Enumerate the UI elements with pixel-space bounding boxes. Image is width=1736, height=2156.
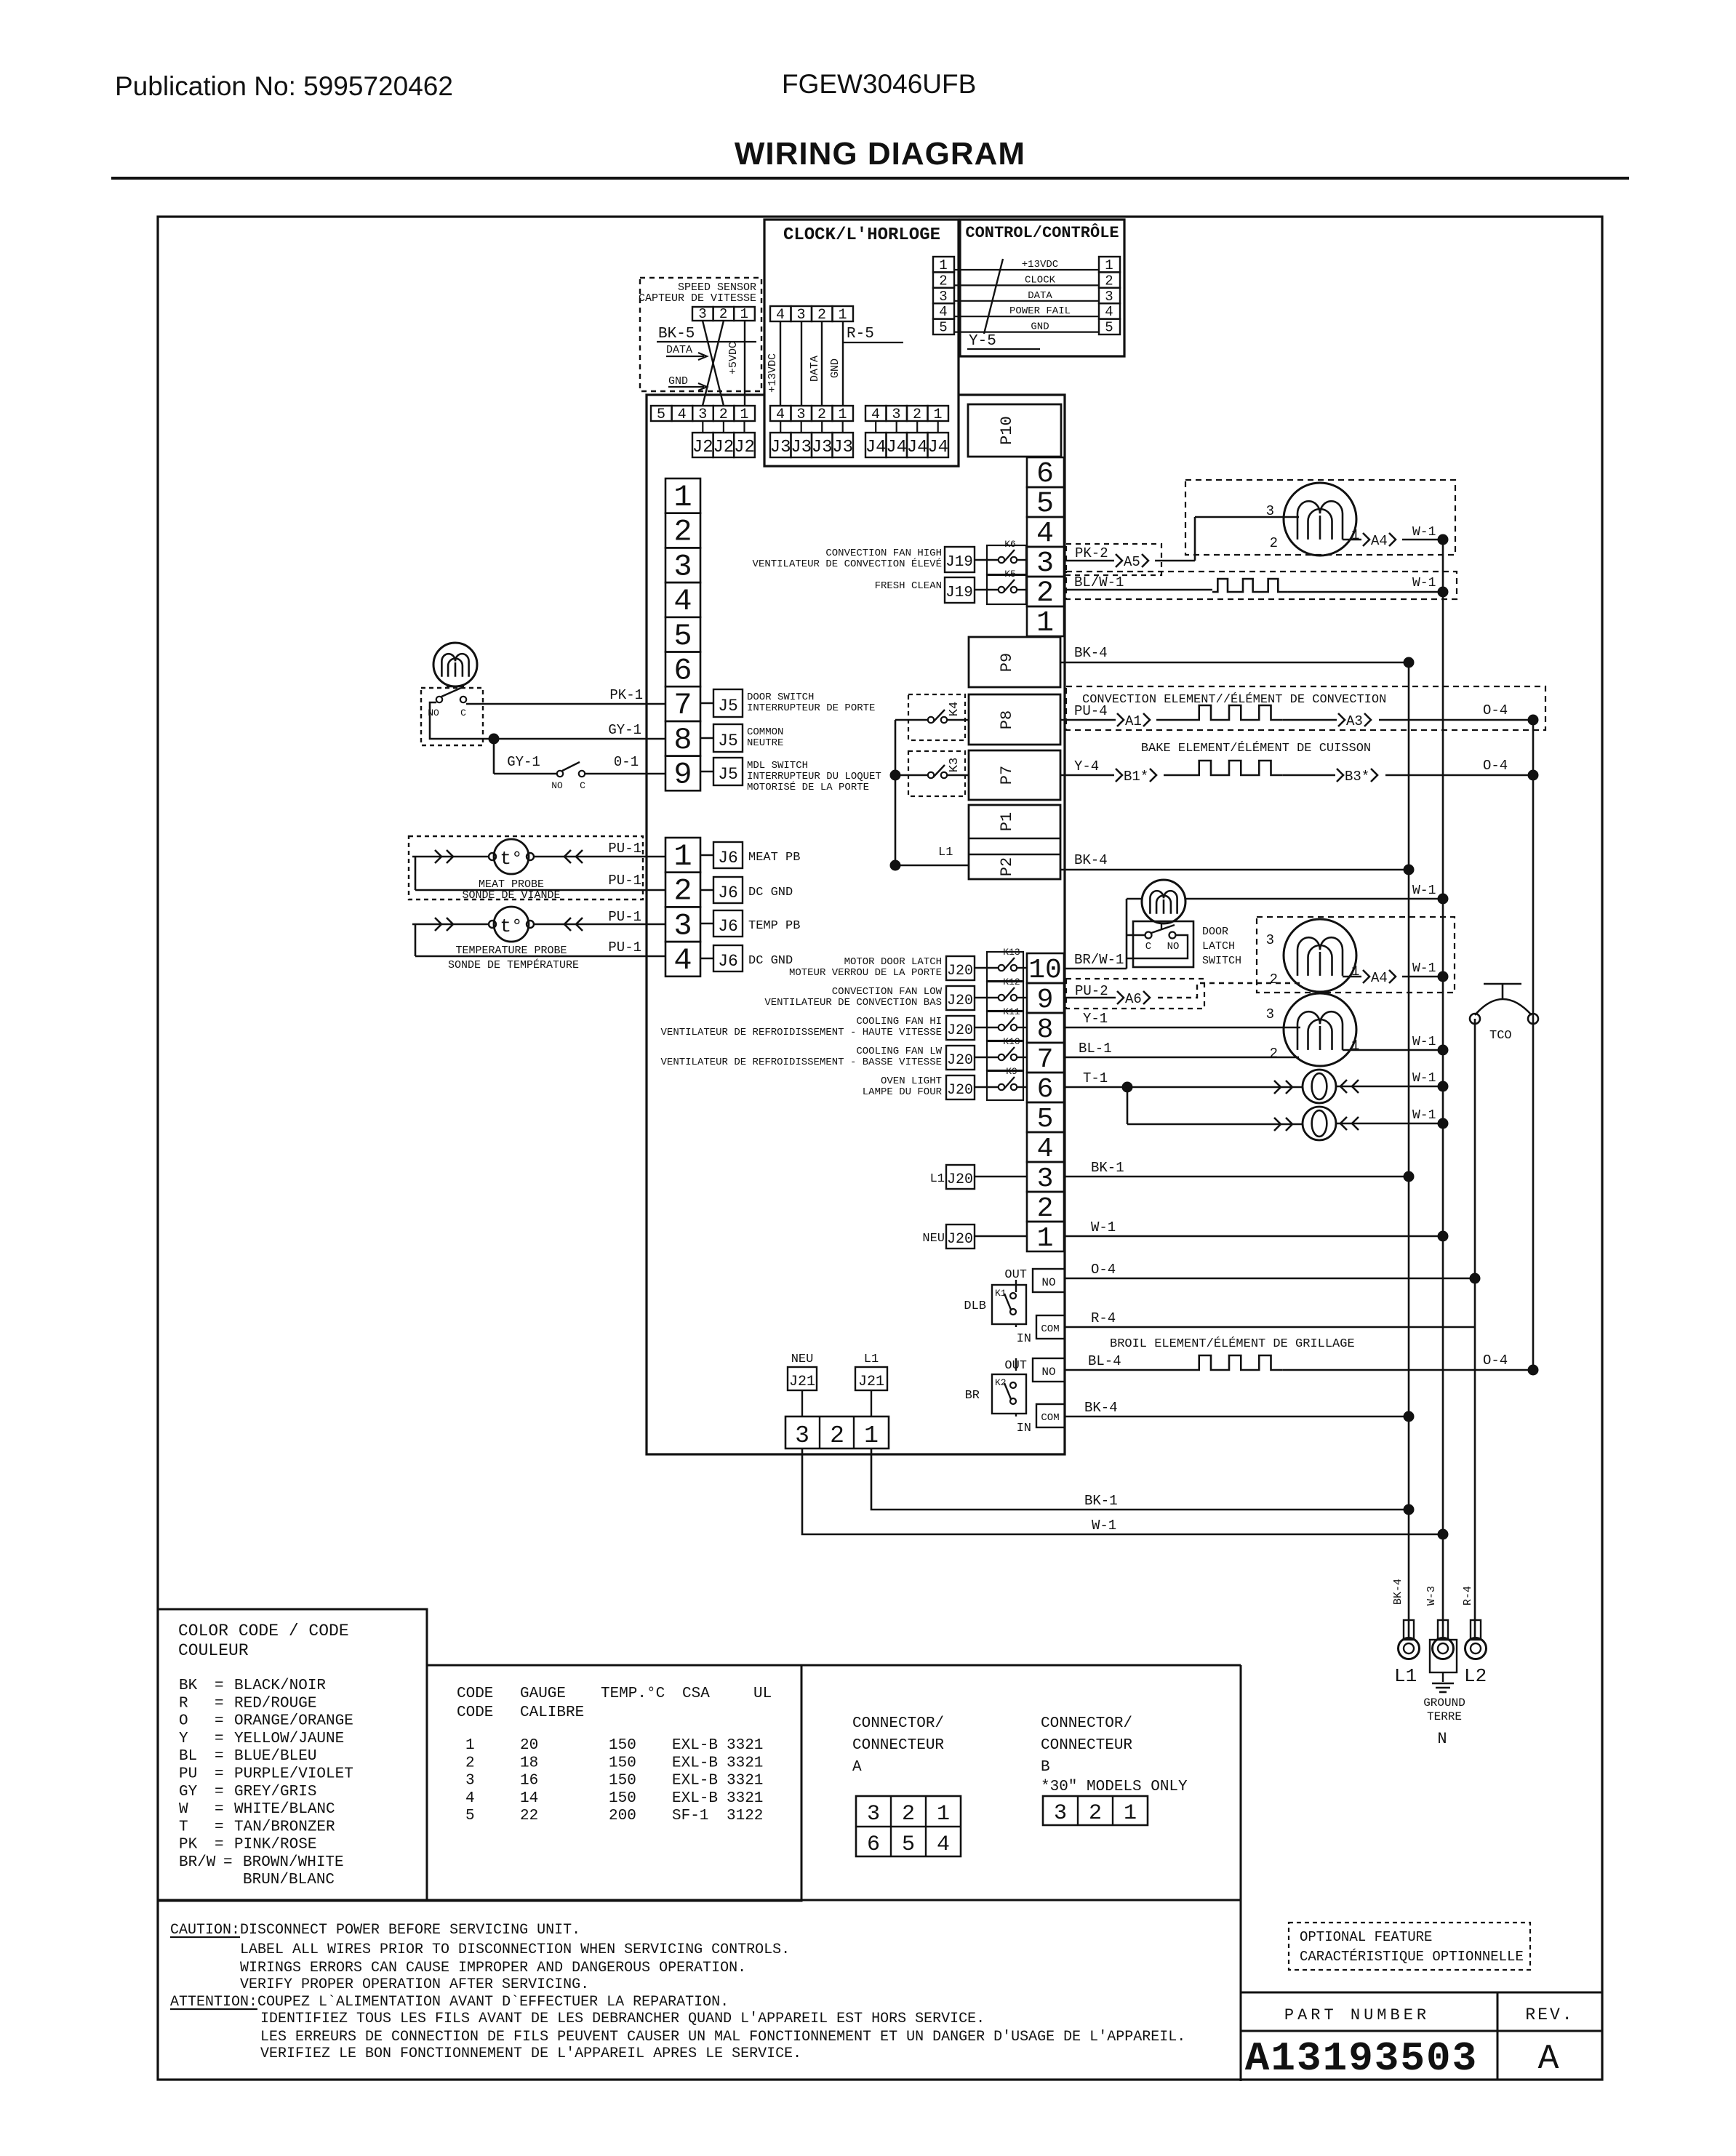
svg-text:COM: COM bbox=[1041, 1323, 1059, 1335]
svg-text:BLACK/NOIR: BLACK/NOIR bbox=[234, 1678, 326, 1694]
svg-text:RED/ROUGE: RED/ROUGE bbox=[234, 1695, 316, 1712]
svg-text:R-5: R-5 bbox=[847, 326, 874, 342]
svg-text:+13VDC: +13VDC bbox=[767, 353, 779, 393]
svg-text:Y-1: Y-1 bbox=[1083, 1011, 1108, 1027]
svg-text:W-1: W-1 bbox=[1092, 1518, 1116, 1534]
svg-text:2: 2 bbox=[719, 406, 728, 423]
svg-text:DOOR SWITCH: DOOR SWITCH bbox=[747, 692, 814, 703]
svg-text:J6: J6 bbox=[718, 917, 738, 936]
svg-text:GY: GY bbox=[179, 1784, 198, 1800]
svg-text:4: 4 bbox=[1037, 1134, 1054, 1165]
svg-text:CALIBRE: CALIBRE bbox=[520, 1704, 584, 1721]
svg-text:4: 4 bbox=[776, 307, 785, 324]
svg-text:A: A bbox=[1538, 2040, 1559, 2079]
svg-text:VERIFIEZ LE BON FONCTIONNEMENT: VERIFIEZ LE BON FONCTIONNEMENT DE L'APPA… bbox=[260, 2045, 801, 2062]
svg-text:MOTOR DOOR LATCH: MOTOR DOOR LATCH bbox=[844, 956, 942, 968]
svg-text:W-1: W-1 bbox=[1412, 1108, 1436, 1123]
svg-text:CONNECTEUR: CONNECTEUR bbox=[852, 1737, 944, 1754]
svg-text:J20: J20 bbox=[947, 1231, 973, 1248]
svg-text:3: 3 bbox=[465, 1773, 475, 1790]
svg-text:A4: A4 bbox=[1371, 970, 1388, 986]
svg-text:J20: J20 bbox=[947, 1171, 973, 1188]
svg-text:GREY/GRIS: GREY/GRIS bbox=[234, 1784, 316, 1800]
svg-text:5: 5 bbox=[465, 1808, 475, 1824]
svg-text:150: 150 bbox=[609, 1755, 636, 1771]
svg-text:J20: J20 bbox=[947, 963, 973, 979]
svg-text:GND: GND bbox=[668, 375, 688, 388]
svg-text:BK-5: BK-5 bbox=[658, 326, 695, 342]
svg-text:MOTORISÉ DE LA PORTE: MOTORISÉ DE LA PORTE bbox=[747, 780, 869, 793]
svg-text:P1: P1 bbox=[998, 812, 1016, 831]
svg-text:J20: J20 bbox=[947, 1022, 973, 1039]
svg-text:2: 2 bbox=[830, 1422, 844, 1449]
svg-text:1: 1 bbox=[1105, 257, 1113, 273]
svg-text:C: C bbox=[1145, 941, 1151, 953]
svg-text:J2: J2 bbox=[692, 438, 713, 457]
svg-text:EXL-B: EXL-B bbox=[672, 1737, 718, 1754]
svg-text:CLOCK/L'HORLOGE: CLOCK/L'HORLOGE bbox=[783, 225, 940, 245]
svg-text:=: = bbox=[215, 1766, 224, 1783]
svg-text:ATTENTION:COUPEZ L`ALIMENTATIO: ATTENTION:COUPEZ L`ALIMENTATION AVANT D`… bbox=[170, 1994, 729, 2011]
svg-text:1: 1 bbox=[838, 307, 847, 324]
svg-text:4: 4 bbox=[678, 406, 687, 423]
svg-text:7: 7 bbox=[673, 688, 692, 723]
svg-text:=: = bbox=[215, 1784, 224, 1800]
svg-text:J5: J5 bbox=[718, 765, 738, 784]
svg-text:A3: A3 bbox=[1346, 713, 1363, 729]
svg-text:T: T bbox=[179, 1819, 188, 1835]
svg-text:=: = bbox=[215, 1731, 224, 1747]
svg-text:J3: J3 bbox=[832, 438, 853, 457]
svg-text:ORANGE/ORANGE: ORANGE/ORANGE bbox=[234, 1713, 353, 1730]
svg-text:9: 9 bbox=[1037, 985, 1054, 1016]
svg-text:YELLOW/JAUNE: YELLOW/JAUNE bbox=[234, 1731, 344, 1747]
svg-text:B3*: B3* bbox=[1345, 769, 1369, 785]
svg-text:150: 150 bbox=[609, 1790, 636, 1807]
svg-text:2: 2 bbox=[673, 874, 692, 909]
svg-text:CAUTION:DISCONNECT POWER BEFOR: CAUTION:DISCONNECT POWER BEFORE SERVICIN… bbox=[170, 1922, 580, 1939]
svg-text:4: 4 bbox=[776, 406, 785, 423]
svg-text:J4: J4 bbox=[886, 438, 907, 457]
svg-text:TEMP PB: TEMP PB bbox=[748, 919, 800, 933]
svg-text:4: 4 bbox=[939, 304, 947, 320]
svg-text:PK-1: PK-1 bbox=[609, 687, 643, 703]
svg-text:3: 3 bbox=[892, 406, 900, 423]
svg-text:5: 5 bbox=[673, 619, 692, 654]
svg-text:J3: J3 bbox=[791, 438, 812, 457]
svg-text:WHITE/BLANC: WHITE/BLANC bbox=[234, 1801, 335, 1818]
svg-text:MDL SWITCH: MDL SWITCH bbox=[747, 760, 808, 772]
svg-text:3321: 3321 bbox=[727, 1737, 763, 1754]
svg-text:CONVECTION FAN HIGH: CONVECTION FAN HIGH bbox=[825, 548, 942, 559]
svg-text:4: 4 bbox=[1105, 304, 1113, 320]
svg-text:PART NUMBER: PART NUMBER bbox=[1284, 2006, 1430, 2024]
svg-text:J5: J5 bbox=[718, 732, 738, 750]
svg-text:CONVECTION FAN LOW: CONVECTION FAN LOW bbox=[832, 986, 943, 998]
svg-text:C: C bbox=[580, 780, 585, 791]
svg-text:5: 5 bbox=[939, 320, 947, 336]
svg-text:P7: P7 bbox=[998, 766, 1016, 785]
svg-text:N: N bbox=[1437, 1730, 1447, 1748]
svg-text:2: 2 bbox=[1036, 577, 1054, 610]
svg-text:BROIL ELEMENT/ÉLÉMENT DE GRILL: BROIL ELEMENT/ÉLÉMENT DE GRILLAGE bbox=[1110, 1337, 1355, 1351]
svg-text:CONNECTOR/: CONNECTOR/ bbox=[1041, 1715, 1132, 1732]
svg-text:K3: K3 bbox=[948, 758, 961, 772]
svg-text:3: 3 bbox=[796, 406, 805, 423]
svg-text:BK-4: BK-4 bbox=[1074, 645, 1108, 661]
svg-text:IN: IN bbox=[1017, 1422, 1031, 1435]
svg-text:2: 2 bbox=[902, 1802, 915, 1827]
svg-text:GAUGE: GAUGE bbox=[520, 1686, 566, 1702]
svg-text:200: 200 bbox=[609, 1808, 636, 1824]
svg-text:K6: K6 bbox=[1004, 539, 1016, 550]
svg-text:IN: IN bbox=[1017, 1332, 1031, 1346]
svg-text:=: = bbox=[215, 1713, 224, 1730]
svg-text:Y: Y bbox=[179, 1731, 188, 1747]
svg-text:3: 3 bbox=[1105, 289, 1113, 305]
svg-text:4: 4 bbox=[465, 1790, 475, 1807]
svg-text:T-1: T-1 bbox=[1083, 1070, 1108, 1086]
svg-text:L1: L1 bbox=[938, 846, 953, 859]
svg-text:18: 18 bbox=[520, 1755, 538, 1771]
svg-text:W-3: W-3 bbox=[1425, 1586, 1438, 1606]
svg-text:O-4: O-4 bbox=[1483, 1352, 1508, 1368]
svg-text:A13193503: A13193503 bbox=[1245, 2035, 1478, 2082]
svg-text:W-1: W-1 bbox=[1412, 525, 1436, 540]
svg-text:COMMON: COMMON bbox=[747, 726, 783, 738]
svg-text:INTERRUPTEUR DE PORTE: INTERRUPTEUR DE PORTE bbox=[747, 702, 875, 714]
svg-text:TAN/BRONZER: TAN/BRONZER bbox=[234, 1819, 335, 1835]
svg-text:EXL-B: EXL-B bbox=[672, 1755, 718, 1771]
svg-text:K9: K9 bbox=[1006, 1066, 1017, 1077]
svg-text:VENTILATEUR DE REFROIDISSEMENT: VENTILATEUR DE REFROIDISSEMENT - BASSE V… bbox=[661, 1057, 942, 1068]
svg-text:BK-4: BK-4 bbox=[1084, 1400, 1118, 1416]
svg-text:2: 2 bbox=[817, 307, 826, 324]
svg-text:BR/W-1: BR/W-1 bbox=[1074, 952, 1124, 968]
svg-text:J20: J20 bbox=[947, 1082, 973, 1099]
svg-text:3321: 3321 bbox=[727, 1773, 763, 1790]
svg-text:K12: K12 bbox=[1003, 977, 1020, 987]
svg-text:DC GND: DC GND bbox=[748, 886, 793, 899]
svg-text:CONNECTOR/: CONNECTOR/ bbox=[852, 1715, 944, 1732]
svg-text:DATA: DATA bbox=[809, 356, 821, 382]
svg-text:J21: J21 bbox=[789, 1374, 815, 1390]
svg-text:0-1: 0-1 bbox=[614, 754, 639, 770]
svg-text:O-4: O-4 bbox=[1483, 758, 1508, 774]
svg-text:8: 8 bbox=[1037, 1014, 1054, 1046]
svg-text:R-4: R-4 bbox=[1091, 1310, 1116, 1326]
svg-text:3: 3 bbox=[1266, 503, 1274, 519]
svg-text:20: 20 bbox=[520, 1737, 538, 1754]
svg-text:J2: J2 bbox=[734, 438, 755, 457]
svg-text:WIRING DIAGRAM: WIRING DIAGRAM bbox=[735, 136, 1025, 172]
svg-text:LES ERREURS DE CONNECTION DE F: LES ERREURS DE CONNECTION DE FILS PEUVEN… bbox=[260, 2029, 1185, 2045]
svg-text:A5: A5 bbox=[1124, 554, 1140, 570]
svg-text:VENTILATEUR DE REFROIDISSEMENT: VENTILATEUR DE REFROIDISSEMENT - HAUTE V… bbox=[661, 1027, 942, 1038]
svg-text:PU-1: PU-1 bbox=[608, 909, 641, 925]
svg-text:FGEW3046UFB: FGEW3046UFB bbox=[782, 69, 976, 99]
svg-text:J2: J2 bbox=[713, 438, 734, 457]
svg-text:W-1: W-1 bbox=[1412, 1071, 1436, 1086]
svg-text:2: 2 bbox=[817, 406, 826, 423]
svg-text:14: 14 bbox=[520, 1790, 538, 1807]
svg-text:EXL-B: EXL-B bbox=[672, 1773, 718, 1790]
svg-text:FRESH CLEAN: FRESH CLEAN bbox=[875, 580, 942, 592]
svg-text:=: = bbox=[215, 1678, 224, 1694]
svg-text:PU-1: PU-1 bbox=[608, 841, 641, 857]
svg-text:5: 5 bbox=[1105, 320, 1113, 336]
svg-text:K1: K1 bbox=[995, 1288, 1007, 1299]
svg-text:=: = bbox=[215, 1837, 224, 1854]
svg-text:B: B bbox=[1041, 1759, 1050, 1776]
svg-text:BL: BL bbox=[179, 1748, 197, 1765]
svg-text:2: 2 bbox=[465, 1755, 475, 1771]
svg-text:1: 1 bbox=[933, 406, 942, 423]
svg-text:4: 4 bbox=[673, 584, 692, 619]
svg-text:BK-4: BK-4 bbox=[1392, 1579, 1404, 1605]
svg-text:A1: A1 bbox=[1125, 713, 1142, 729]
svg-text:3: 3 bbox=[939, 289, 947, 305]
svg-text:NO: NO bbox=[1167, 941, 1180, 953]
svg-text:3: 3 bbox=[1037, 1163, 1054, 1195]
svg-text:LATCH: LATCH bbox=[1202, 940, 1235, 953]
svg-text:OVEN LIGHT: OVEN LIGHT bbox=[881, 1075, 942, 1087]
svg-text:SONDE DE TEMPÉRATURE: SONDE DE TEMPÉRATURE bbox=[448, 958, 579, 971]
svg-text:Y-5: Y-5 bbox=[969, 333, 996, 350]
svg-text:3: 3 bbox=[1054, 1801, 1067, 1826]
svg-text:16: 16 bbox=[520, 1773, 538, 1790]
svg-text:A6: A6 bbox=[1125, 991, 1142, 1007]
svg-text:J19: J19 bbox=[945, 554, 973, 571]
svg-text:W-1: W-1 bbox=[1412, 961, 1436, 976]
svg-text:J6: J6 bbox=[718, 849, 738, 867]
svg-text:BK-1: BK-1 bbox=[1084, 1493, 1118, 1509]
svg-text:P9: P9 bbox=[998, 653, 1016, 672]
svg-text:BAKE ELEMENT/ÉLÉMENT DE CUISSO: BAKE ELEMENT/ÉLÉMENT DE CUISSON bbox=[1141, 741, 1371, 756]
svg-text:NEU: NEU bbox=[922, 1232, 945, 1246]
svg-text:MOTEUR VERROU DE LA PORTE: MOTEUR VERROU DE LA PORTE bbox=[789, 967, 942, 979]
svg-text:PU-1: PU-1 bbox=[608, 873, 641, 889]
svg-text:3: 3 bbox=[795, 1422, 809, 1449]
svg-text:PINK/ROSE: PINK/ROSE bbox=[234, 1837, 316, 1854]
svg-text:VENTILATEUR DE CONVECTION ÉLEV: VENTILATEUR DE CONVECTION ÉLEVÉ bbox=[753, 557, 942, 570]
svg-text:3: 3 bbox=[1266, 1006, 1274, 1022]
svg-text:5: 5 bbox=[657, 406, 665, 423]
svg-text:SONDE DE VIANDE: SONDE DE VIANDE bbox=[462, 889, 560, 902]
svg-text:1: 1 bbox=[740, 406, 748, 423]
svg-text:W-1: W-1 bbox=[1412, 576, 1436, 590]
svg-text:=: = bbox=[215, 1819, 224, 1835]
svg-text:IDENTIFIEZ TOUS LES FILS AVANT: IDENTIFIEZ TOUS LES FILS AVANT DE LES DE… bbox=[260, 2011, 985, 2027]
svg-text:PURPLE/VIOLET: PURPLE/VIOLET bbox=[234, 1766, 353, 1783]
svg-text:2: 2 bbox=[1105, 273, 1113, 289]
svg-text:DOOR: DOOR bbox=[1202, 926, 1228, 938]
svg-text:BL-4: BL-4 bbox=[1088, 1353, 1121, 1369]
svg-text:UL: UL bbox=[753, 1686, 772, 1702]
svg-text:J6: J6 bbox=[718, 883, 738, 902]
svg-text:3321: 3321 bbox=[727, 1755, 763, 1771]
svg-text:CODE: CODE bbox=[457, 1704, 493, 1721]
svg-text:2: 2 bbox=[1270, 1046, 1278, 1062]
svg-text:K10: K10 bbox=[1003, 1036, 1020, 1047]
svg-text:1: 1 bbox=[1124, 1801, 1137, 1826]
svg-text:22: 22 bbox=[520, 1808, 538, 1824]
svg-text:NEUTRE: NEUTRE bbox=[747, 737, 783, 749]
svg-text:PU-4: PU-4 bbox=[1074, 703, 1108, 719]
svg-text:O-4: O-4 bbox=[1091, 1262, 1116, 1278]
svg-text:Y-4: Y-4 bbox=[1074, 758, 1099, 774]
svg-text:4: 4 bbox=[673, 943, 692, 978]
svg-text:3: 3 bbox=[867, 1802, 880, 1827]
svg-text:K13: K13 bbox=[1003, 947, 1020, 958]
svg-text:OPTIONAL FEATURE: OPTIONAL FEATURE bbox=[1300, 1929, 1432, 1945]
svg-text:A4: A4 bbox=[1371, 533, 1388, 549]
svg-text:10: 10 bbox=[1028, 955, 1062, 986]
svg-text:BK: BK bbox=[179, 1678, 198, 1694]
svg-text:+13VDC: +13VDC bbox=[1022, 259, 1058, 270]
svg-text:1: 1 bbox=[939, 257, 947, 273]
svg-text:=: = bbox=[215, 1801, 224, 1818]
svg-text:1: 1 bbox=[740, 306, 748, 322]
svg-text:CARACTÉRISTIQUE OPTIONNELLE: CARACTÉRISTIQUE OPTIONNELLE bbox=[1300, 1949, 1524, 1965]
svg-text:3: 3 bbox=[698, 306, 706, 322]
svg-text:150: 150 bbox=[609, 1737, 636, 1754]
svg-text:L2: L2 bbox=[1464, 1665, 1487, 1687]
svg-text:4: 4 bbox=[937, 1832, 950, 1857]
svg-text:=: = bbox=[223, 1854, 233, 1871]
svg-text:J20: J20 bbox=[947, 1052, 973, 1069]
svg-text:DATA: DATA bbox=[1028, 290, 1052, 302]
svg-text:4: 4 bbox=[1036, 518, 1054, 550]
svg-text:A: A bbox=[852, 1759, 862, 1776]
svg-text:R-4: R-4 bbox=[1462, 1586, 1474, 1606]
svg-text:CONTROL/CONTRÔLE: CONTROL/CONTRÔLE bbox=[965, 223, 1119, 242]
svg-text:C: C bbox=[460, 708, 466, 718]
svg-text:P8: P8 bbox=[998, 710, 1016, 729]
svg-text:BL-1: BL-1 bbox=[1079, 1041, 1112, 1057]
svg-text:BK-1: BK-1 bbox=[1091, 1160, 1124, 1176]
svg-text:L1: L1 bbox=[864, 1352, 879, 1366]
svg-text:1: 1 bbox=[673, 839, 692, 874]
svg-text:LAMPE DU FOUR: LAMPE DU FOUR bbox=[863, 1086, 943, 1098]
svg-text:2: 2 bbox=[913, 406, 921, 423]
svg-text:TEMPERATURE PROBE: TEMPERATURE PROBE bbox=[455, 945, 567, 957]
svg-text:1: 1 bbox=[864, 1422, 879, 1449]
svg-text:K4: K4 bbox=[948, 702, 961, 716]
svg-text:COOLING FAN HI: COOLING FAN HI bbox=[856, 1016, 942, 1027]
svg-text:BROWN/WHITE: BROWN/WHITE bbox=[243, 1854, 344, 1871]
svg-text:1: 1 bbox=[1036, 607, 1054, 640]
svg-text:BK-4: BK-4 bbox=[1074, 852, 1108, 868]
svg-text:W-1: W-1 bbox=[1412, 1035, 1436, 1049]
svg-text:J3: J3 bbox=[770, 438, 791, 457]
svg-text:COOLING FAN LW: COOLING FAN LW bbox=[856, 1046, 942, 1057]
svg-text:2: 2 bbox=[673, 515, 692, 550]
svg-text:POWER FAIL: POWER FAIL bbox=[1009, 305, 1071, 317]
svg-text:6: 6 bbox=[1037, 1074, 1054, 1105]
svg-text:2: 2 bbox=[939, 273, 947, 289]
svg-text:5: 5 bbox=[1037, 1104, 1054, 1135]
svg-text:9: 9 bbox=[673, 758, 692, 793]
svg-text:2: 2 bbox=[1270, 535, 1278, 551]
svg-text:CLOCK: CLOCK bbox=[1025, 274, 1056, 286]
svg-text:COLOR CODE / CODE: COLOR CODE / CODE bbox=[178, 1622, 349, 1640]
svg-text:CSA: CSA bbox=[682, 1686, 710, 1702]
svg-text:NEU: NEU bbox=[791, 1352, 814, 1366]
svg-text:BRUN/BLANC: BRUN/BLANC bbox=[243, 1872, 335, 1888]
svg-text:WIRINGS ERRORS CAN CAUSE IMPRO: WIRINGS ERRORS CAN CAUSE IMPROPER AND DA… bbox=[240, 1960, 746, 1976]
svg-text:COULEUR: COULEUR bbox=[178, 1641, 249, 1660]
svg-text:O-4: O-4 bbox=[1483, 702, 1508, 718]
svg-text:150: 150 bbox=[609, 1773, 636, 1790]
svg-text:PK: PK bbox=[179, 1837, 198, 1854]
svg-text:BR/W: BR/W bbox=[179, 1854, 216, 1871]
svg-text:6: 6 bbox=[867, 1832, 880, 1857]
svg-text:J4: J4 bbox=[865, 438, 887, 457]
svg-text:BR: BR bbox=[965, 1389, 980, 1403]
svg-text:2: 2 bbox=[719, 306, 727, 322]
svg-text:5: 5 bbox=[1036, 488, 1054, 521]
svg-text:DC GND: DC GND bbox=[748, 954, 793, 968]
svg-text:W: W bbox=[179, 1801, 188, 1818]
svg-text:NO: NO bbox=[1041, 1276, 1055, 1289]
svg-text:EXL-B: EXL-B bbox=[672, 1790, 718, 1807]
svg-text:+5VDC: +5VDC bbox=[727, 342, 740, 374]
svg-text:REV.: REV. bbox=[1525, 2005, 1574, 2024]
svg-text:K11: K11 bbox=[1003, 1006, 1020, 1017]
svg-text:CAPTEUR DE VITESSE: CAPTEUR DE VITESSE bbox=[639, 292, 756, 305]
svg-text:W-1: W-1 bbox=[1091, 1219, 1116, 1235]
svg-text:PU: PU bbox=[179, 1766, 197, 1783]
svg-text:3: 3 bbox=[1266, 932, 1274, 948]
svg-text:*30" MODELS ONLY: *30" MODELS ONLY bbox=[1041, 1779, 1188, 1795]
svg-text:1: 1 bbox=[1037, 1223, 1054, 1254]
svg-text:5: 5 bbox=[902, 1832, 915, 1857]
svg-text:VENTILATEUR DE CONVECTION BAS: VENTILATEUR DE CONVECTION BAS bbox=[764, 997, 942, 1009]
svg-text:O: O bbox=[179, 1713, 188, 1730]
svg-text:W-1: W-1 bbox=[1412, 883, 1436, 898]
svg-text:3: 3 bbox=[673, 549, 692, 584]
svg-text:GROUND: GROUND bbox=[1423, 1696, 1465, 1710]
svg-text:3: 3 bbox=[698, 406, 707, 423]
svg-text:4: 4 bbox=[871, 406, 880, 423]
svg-text:6: 6 bbox=[673, 654, 692, 689]
svg-text:L1: L1 bbox=[930, 1172, 945, 1186]
svg-text:K2: K2 bbox=[995, 1377, 1007, 1388]
svg-text:J3: J3 bbox=[812, 438, 833, 457]
svg-text:R: R bbox=[179, 1695, 188, 1712]
svg-text:INTERRUPTEUR DU LOQUET: INTERRUPTEUR DU LOQUET bbox=[747, 771, 881, 782]
svg-text:J4: J4 bbox=[927, 438, 948, 457]
svg-text:COM: COM bbox=[1041, 1412, 1059, 1424]
svg-text:=: = bbox=[215, 1695, 224, 1712]
svg-text:DATA: DATA bbox=[666, 344, 692, 356]
svg-text:Publication No: 5995720462: Publication No: 5995720462 bbox=[115, 71, 453, 101]
svg-text:DLB: DLB bbox=[964, 1299, 986, 1313]
svg-text:3: 3 bbox=[796, 307, 805, 324]
svg-text:J4: J4 bbox=[907, 438, 928, 457]
svg-text:SWITCH: SWITCH bbox=[1202, 955, 1241, 967]
svg-text:J5: J5 bbox=[718, 697, 738, 716]
svg-text:NO: NO bbox=[1041, 1366, 1055, 1379]
svg-text:L1: L1 bbox=[1394, 1665, 1417, 1687]
svg-text:3321: 3321 bbox=[727, 1790, 763, 1807]
svg-text:6: 6 bbox=[1036, 458, 1054, 491]
svg-text:GY-1: GY-1 bbox=[608, 722, 641, 738]
svg-text:GND: GND bbox=[829, 358, 841, 378]
svg-text:TEMP.°C: TEMP.°C bbox=[601, 1686, 665, 1702]
svg-text:3122: 3122 bbox=[727, 1808, 763, 1824]
